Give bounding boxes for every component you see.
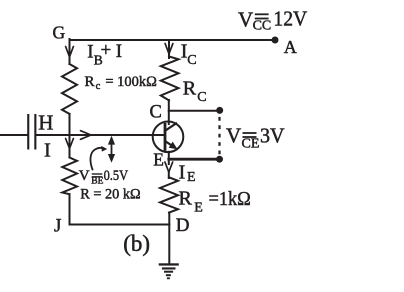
svg-text:I: I	[87, 42, 93, 63]
resistor R1 (Rc=100k) zigzag	[62, 64, 77, 114]
svg-text:C: C	[197, 90, 206, 105]
wire left branch lower to J	[69, 194, 71, 224]
node VCE top dot	[216, 107, 223, 114]
dashed measurement line VCE	[218, 117, 220, 155]
svg-text:CC: CC	[253, 19, 272, 34]
svg-text:E: E	[194, 200, 203, 215]
node A dot	[272, 37, 279, 44]
wire emitter node to VCE bottom dot	[169, 158, 220, 161]
arrow IB on base wire (open)	[81, 131, 92, 140]
wire input left of capacitor	[0, 134, 27, 136]
svg-text:12V: 12V	[273, 7, 307, 31]
capacitor C1 plates	[27, 114, 36, 150]
wire base from capacitor to transistor	[37, 134, 165, 136]
svg-text:V: V	[226, 124, 241, 148]
arrow down on left branch below base junction	[66, 139, 74, 149]
transistor Q1 collector slant	[165, 123, 177, 131]
svg-text:E: E	[187, 170, 196, 185]
transistor Q1 emitter slant	[165, 141, 174, 147]
wire RE bottom to ground	[168, 213, 170, 264]
svg-text:=1kΩ: =1kΩ	[209, 188, 251, 210]
resistor R3 (RC) zigzag	[161, 57, 179, 101]
transistor Q1 emitter arrowhead	[169, 142, 178, 150]
svg-text:C: C	[187, 53, 196, 68]
resistor R4 (RE) zigzag	[160, 177, 178, 212]
svg-text:I: I	[44, 139, 51, 161]
svg-text:CE: CE	[242, 136, 260, 151]
svg-text:A: A	[284, 37, 297, 57]
wire emitter arrow to resistor	[168, 171, 170, 178]
double-headed arrow at VBE	[108, 136, 115, 163]
arrow IE down on emitter	[165, 162, 173, 172]
svg-text:V: V	[238, 7, 253, 31]
svg-text:G: G	[53, 23, 66, 43]
curved arrow near VBE	[90, 148, 103, 170]
wire left branch middle	[69, 114, 71, 157]
svg-text:R = 20 kΩ: R = 20 kΩ	[80, 187, 141, 203]
transistor Q1 circle	[153, 122, 184, 153]
svg-text:I: I	[116, 41, 122, 62]
arrow IB+I down on left branch	[66, 47, 74, 57]
wire top rail G to A	[70, 39, 276, 41]
svg-text:V: V	[79, 168, 90, 184]
resistor R2 (R=20k) zigzag	[62, 158, 77, 195]
svg-text:= 100kΩ: = 100kΩ	[105, 74, 156, 90]
svg-text:E: E	[153, 149, 164, 169]
svg-text:+: +	[101, 40, 112, 61]
arrow IC down on right branch	[165, 44, 173, 54]
wire right branch top	[168, 40, 170, 58]
svg-text:R: R	[179, 188, 193, 210]
wire left branch upper (G down to base junction)	[69, 39, 71, 64]
svg-text:R: R	[183, 77, 197, 99]
node VCE bottom dot	[216, 156, 223, 163]
svg-text:3V: 3V	[260, 124, 285, 148]
svg-text:R: R	[85, 74, 95, 90]
transistor Q1 base bar	[164, 123, 167, 151]
svg-text:(b): (b)	[123, 231, 150, 256]
svg-text:BE: BE	[91, 176, 103, 186]
svg-text:c: c	[96, 81, 101, 92]
wire emitter down	[168, 152, 170, 164]
wire node C to VCE top dot	[169, 110, 220, 112]
svg-text:D: D	[176, 215, 190, 236]
svg-text:H: H	[38, 111, 53, 135]
ground	[159, 263, 179, 279]
wire collector to node C	[168, 100, 170, 124]
svg-text:I: I	[179, 161, 186, 183]
svg-text:J: J	[54, 215, 61, 236]
svg-text:C: C	[150, 103, 162, 123]
svg-text:0.5V: 0.5V	[104, 168, 129, 184]
wire bottom J to D	[70, 224, 170, 226]
